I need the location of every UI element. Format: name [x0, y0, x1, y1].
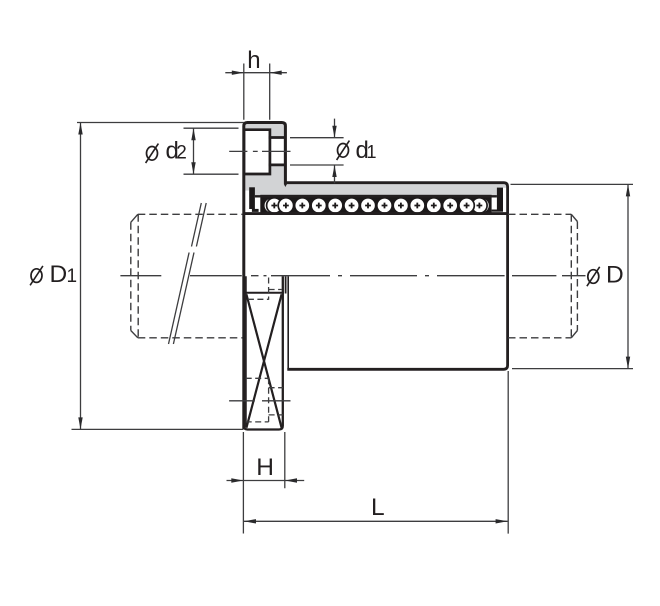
svg-text:D: D — [606, 262, 624, 289]
svg-text:H: H — [256, 454, 274, 481]
svg-text:h: h — [247, 47, 260, 74]
svg-text:1: 1 — [367, 142, 377, 162]
svg-text:L: L — [371, 494, 385, 521]
svg-text:1: 1 — [67, 266, 78, 287]
svg-text:2: 2 — [176, 143, 187, 164]
svg-text:D: D — [50, 261, 68, 288]
